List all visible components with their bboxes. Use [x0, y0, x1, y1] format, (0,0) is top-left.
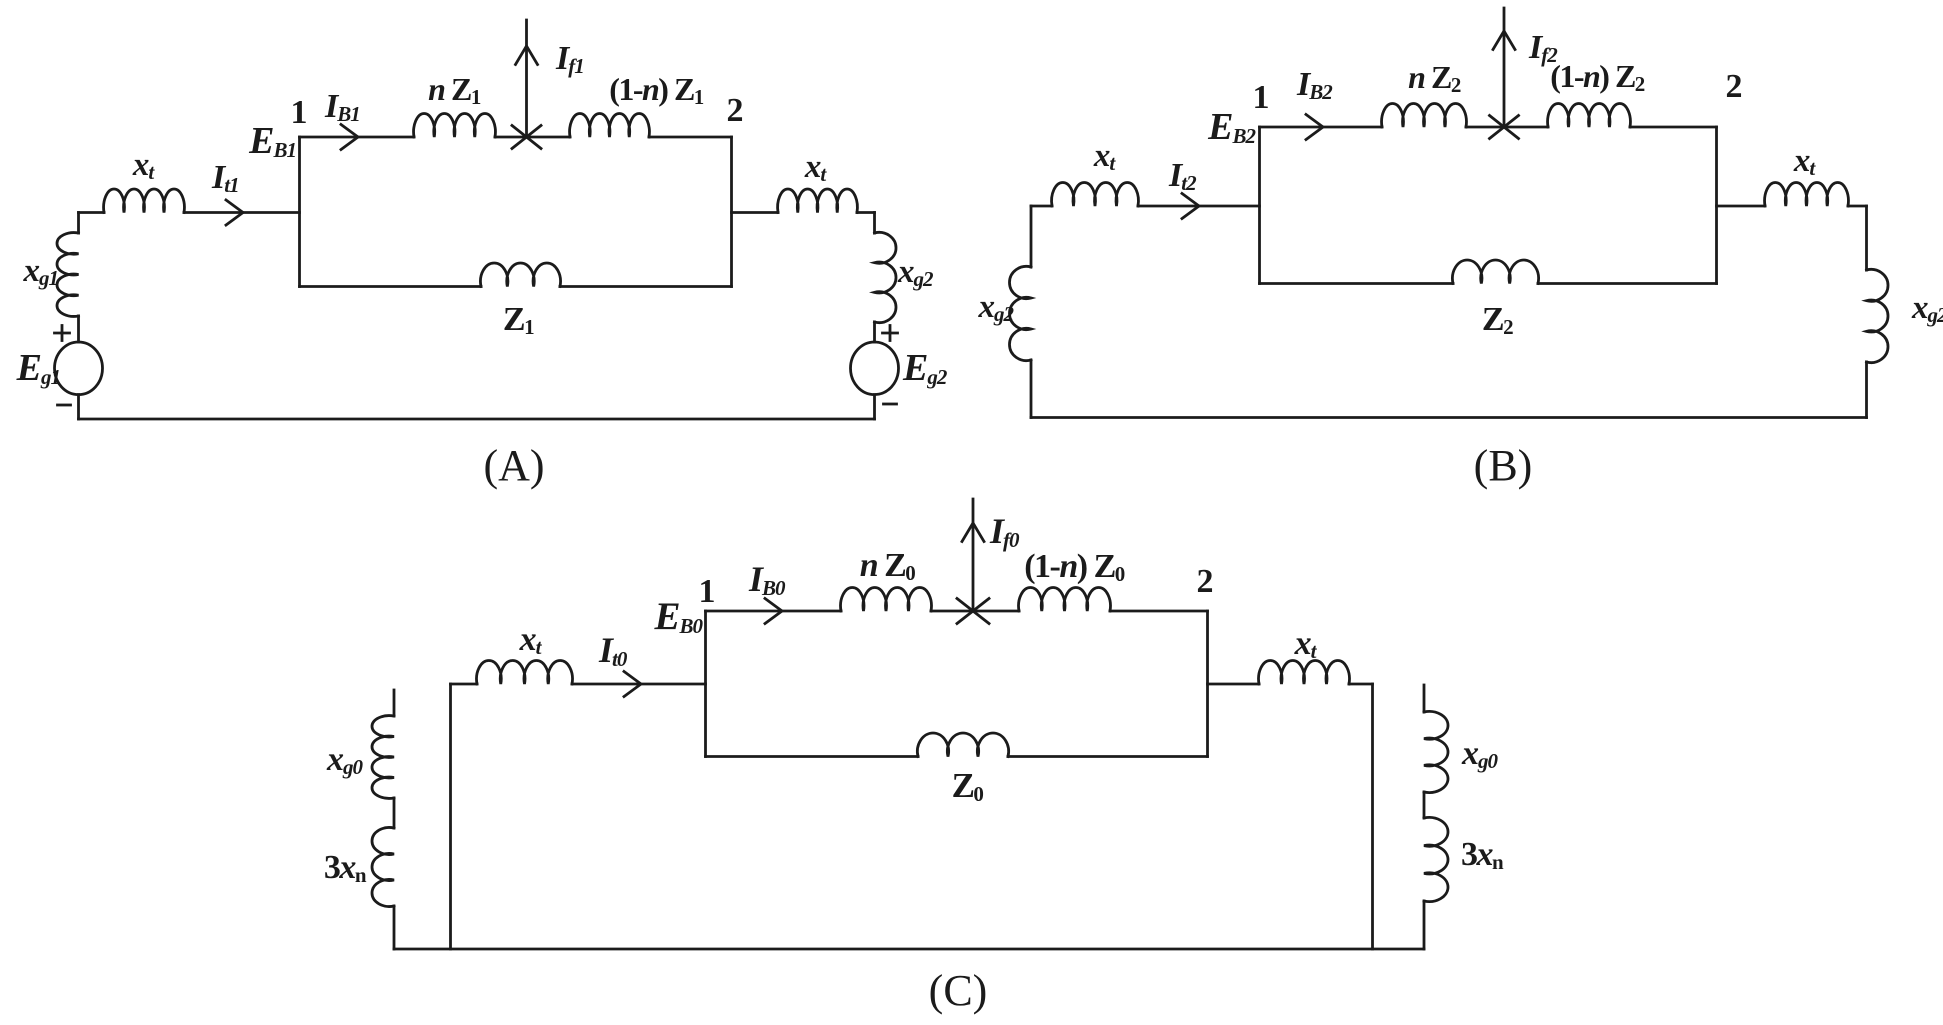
wire between xg0 and 3xn (C right) [1423, 792, 1426, 818]
wire left chain stub (C) [393, 690, 396, 716]
wire node 2 vertical (B) [1715, 127, 1718, 284]
wire B loop bottom left [1260, 282, 1454, 285]
svg-text:2: 2 [727, 92, 744, 129]
svg-text:2: 2 [1197, 563, 1214, 600]
arrow If1 direction [516, 46, 538, 65]
wire C left main vertical [449, 684, 452, 949]
svg-text:(A): (A) [483, 441, 544, 490]
svg-text:1: 1 [291, 94, 308, 131]
wire 3xn to bottom rail (C right) [1423, 901, 1426, 949]
wire node 1 vertical (C) [704, 611, 707, 757]
wire C left corner to xt [451, 683, 478, 686]
wire B left corner horizontal [1031, 205, 1052, 208]
wire B top rail middle segment [1466, 126, 1548, 129]
svg-text:(1-n) Z1: (1-n) Z1 [609, 71, 704, 109]
wire node 2 vertical (A) [730, 137, 733, 287]
inductor xt (C left) [477, 660, 573, 684]
svg-text:1: 1 [699, 573, 716, 610]
inductor xt (B left) [1052, 182, 1139, 206]
minus sign Eg2 [884, 403, 897, 406]
wire xg2 to source Eg2 [873, 322, 876, 342]
inductor 3xn (C left) [372, 827, 394, 906]
minus sign Eg1 [58, 404, 71, 407]
fault point X (B) [1490, 116, 1519, 139]
svg-text:2: 2 [1726, 68, 1743, 105]
arrow IB1 direction [341, 125, 358, 150]
arrow It2 direction [1182, 194, 1199, 219]
wire C loop bottom right [1008, 755, 1208, 758]
plus sign Eg2 [883, 326, 898, 341]
wire C top rail middle segment [931, 610, 1019, 613]
inductor xg0 (C right) [1424, 711, 1448, 792]
inductor n Z1 [414, 113, 496, 137]
inductor n Z2 [1382, 103, 1467, 127]
wire B right vertical upper [1865, 206, 1868, 270]
wire A loop bottom right [560, 285, 732, 288]
inductor Z0 [917, 733, 1008, 757]
wire xt to C right corner [1349, 683, 1373, 686]
svg-text:(1-n) Z2: (1-n) Z2 [1550, 58, 1645, 96]
wire fault branch If1 [525, 20, 528, 137]
wire A left feed to node 1 [184, 211, 300, 214]
wire C top rail left segment [706, 610, 842, 613]
inductor xg0 (C left) [372, 716, 394, 799]
inductor 3xn (C right) [1424, 817, 1448, 901]
wire between xg0 and 3xn (C left) [393, 798, 396, 828]
wire A left vertical upper [77, 213, 80, 234]
wire C left feed to node 1 [572, 683, 706, 686]
fault point X (C) [957, 599, 989, 624]
svg-text:1: 1 [1253, 79, 1270, 116]
wire A loop bottom left [300, 285, 482, 288]
wire node 2 to xt (B right) [1717, 205, 1766, 208]
svg-text:(C): (C) [929, 966, 988, 1015]
wire A top rail middle segment [495, 136, 570, 139]
wire xt to A right corner [857, 211, 875, 214]
inductor (1-n) Z0 [1019, 587, 1111, 611]
inductor (1-n) Z1 [570, 113, 650, 137]
wire B left feed to node 1 [1138, 205, 1260, 208]
plus sign Eg1 [55, 326, 70, 341]
inductor xt (B right) [1765, 182, 1849, 206]
wire node 2 to xt (C right) [1208, 683, 1260, 686]
inductor xg2 (B left) [1009, 266, 1031, 360]
inductor xt (C right) [1259, 660, 1350, 684]
wire B left vertical lower [1030, 360, 1033, 418]
inductor Z1 [480, 263, 560, 286]
wire B top rail right segment [1630, 126, 1717, 129]
inductor (1-n) Z2 [1548, 103, 1631, 127]
wire 3xn to bottom rail (C left) [393, 906, 396, 949]
inductor xg2 (B right) [1867, 269, 1889, 362]
inductor n Z0 [841, 587, 932, 611]
arrow It0 direction [624, 672, 641, 697]
wire fault branch If0 [972, 499, 975, 611]
source Eg1 [55, 342, 103, 395]
wire B right vertical lower [1865, 362, 1868, 418]
arrow IB0 direction [765, 599, 782, 624]
arrow If2 direction [1493, 31, 1515, 50]
arrow IB2 direction [1306, 115, 1323, 140]
inductor xt (A left) [104, 189, 185, 213]
wire xt to B right corner [1848, 205, 1867, 208]
svg-text:(B): (B) [1474, 441, 1533, 490]
wire right chain stub (C) [1423, 685, 1426, 712]
wire C bottom rail [394, 948, 1424, 951]
wire B loop bottom right [1538, 282, 1717, 285]
wire node 2 vertical (C) [1206, 611, 1209, 757]
wire A top rail left segment [300, 136, 415, 139]
fault point X (A) [512, 126, 541, 149]
wire node 1 vertical (A) [298, 137, 301, 287]
source Eg2 [851, 342, 899, 395]
wire node 2 to xt (A right) [732, 211, 779, 214]
wire B left vertical upper [1030, 206, 1033, 267]
wire Eg2 to bottom rail [873, 395, 876, 419]
wire Eg1 to bottom rail [77, 395, 80, 419]
inductor xt (A right) [778, 189, 858, 213]
wire C top rail right segment [1110, 610, 1208, 613]
wire node 1 vertical (B) [1258, 127, 1261, 284]
wire A top rail right segment [649, 136, 732, 139]
wire A left corner horizontal [79, 211, 105, 214]
inductor Z2 [1452, 260, 1538, 283]
arrow If0 direction [962, 523, 984, 542]
wire B top rail left segment [1260, 126, 1383, 129]
wire A right vertical upper [873, 213, 876, 234]
wire A bottom rail [79, 418, 875, 421]
wire B bottom rail [1031, 416, 1867, 419]
wire C loop bottom left [706, 755, 919, 758]
wire C right main vertical [1371, 684, 1374, 949]
inductor xg2 (A right) [875, 232, 897, 322]
svg-text:(1-n) Z0: (1-n) Z0 [1024, 548, 1125, 586]
inductor xg1 [57, 233, 79, 317]
wire xg1 to source Eg1 [77, 316, 80, 342]
wire fault branch If2 [1503, 8, 1506, 127]
arrow It1 direction [226, 200, 243, 225]
